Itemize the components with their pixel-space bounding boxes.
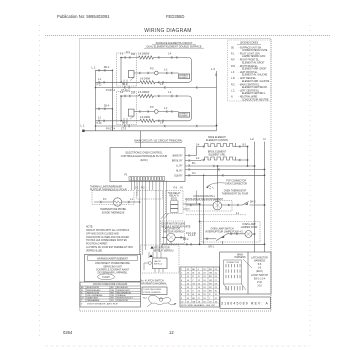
svg-text:BAKE RY: BAKE RY [173, 154, 183, 157]
svg-text:YELLOW/JAUNE: YELLOW/JAUNE [87, 294, 103, 297]
terminal marks element wire [99, 120, 164, 122]
terminal marks top wire [125, 56, 178, 58]
svg-text:L.F.: L.F. [231, 72, 235, 74]
resistor surface element 1B [140, 81, 155, 84]
svg-text:THERMOSTAT DU FOUR: THERMOSTAT DU FOUR [222, 192, 249, 195]
svg-text:GRAY/GRIS: GRAY/GRIS [87, 297, 99, 300]
thermostat zone dashed bottom [186, 214, 246, 216]
svg-text:LAMPE TEMOIN 120V: LAMPE TEMOIN 120V [242, 55, 266, 58]
terminal marks EOC outputs [189, 154, 224, 176]
svg-text:TOUTES LES COMMANDES SONT EN: TOUTES LES COMMANDES SONT EN [86, 239, 127, 242]
svg-text:MOTEUR VERROU: MOTEUR VERROU [164, 231, 185, 233]
svg-text:- LEFT REAR EL.: - LEFT REAR EL. [239, 77, 257, 80]
TOD delay relay box [166, 191, 184, 214]
svg-text:DR-1: DR-1 [209, 246, 215, 248]
svg-text:MAIN: MAIN [237, 253, 243, 256]
terminal marks lamp [207, 233, 238, 240]
junction feed left [95, 87, 97, 89]
surface element label box [179, 74, 190, 79]
junction stub [112, 108, 114, 110]
svg-text:DR-2: DR-2 [183, 239, 189, 241]
svg-text:P-10: P-10 [257, 282, 263, 284]
svg-text:ELEMENT CUISSON: ELEMENT CUISSON [206, 140, 228, 142]
cut mark bottom dashed line [45, 345, 310, 347]
surface unit circuit 1 [95, 52, 217, 131]
junction loop left [120, 95, 122, 97]
svg-text:- RIGHT REAR EL.: - RIGHT REAR EL. [239, 65, 259, 68]
svg-text:VERROUILLEE.: VERROUILLEE. [86, 250, 103, 252]
main diagram frame [80, 39, 272, 312]
svg-text:R.F.: R.F. [231, 60, 235, 62]
resistor broil element [205, 157, 236, 160]
svg-text:INFORMATION/NORMAL: INFORMATION/NORMAL [141, 283, 168, 286]
wire left bracket [121, 96, 123, 121]
surface elements circuit title [144, 42, 204, 49]
svg-text:SONDE THERMIQUE: SONDE THERMIQUE [102, 212, 125, 214]
wire middle line [134, 72, 179, 74]
svg-text:SERVICING UNIT: SERVICING UNIT [103, 266, 122, 268]
svg-text:- RIGHT FRONT EL.: - RIGHT FRONT EL. [239, 60, 260, 62]
svg-text:BAKE ELEMENT: BAKE ELEMENT [208, 136, 226, 139]
probe resistor inside [114, 201, 120, 203]
junction lamp feed [203, 175, 205, 177]
wire TOD diagonals [161, 214, 169, 219]
svg-text:2-8 1800W: 2-8 1800W [138, 53, 150, 55]
junction stub [112, 70, 114, 72]
main harness box [220, 252, 271, 294]
svg-text:TOP CONNECTOR: TOP CONNECTOR [226, 181, 246, 183]
svg-text:SW No.4: SW No.4 [154, 264, 163, 266]
resistor bake element [205, 144, 236, 147]
svg-text:DUAL ELEMENT/ELEMENT DOUBLE SU: DUAL ELEMENT/ELEMENT DOUBLE SURFACE [146, 45, 201, 48]
wire vertical bus bundle below EOC [132, 181, 167, 256]
wire probe left [94, 201, 113, 203]
svg-text:FLASH: FLASH [102, 276, 110, 279]
svg-text:- MAIN CENTER EL.: - MAIN CENTER EL. [239, 83, 261, 86]
svg-text:OVEN DOOR CLOSED AND UNLOCKED.: OVEN DOOR CLOSED AND UNLOCKED. [86, 236, 130, 239]
svg-text:ELEMENT GRIL: ELEMENT GRIL [209, 155, 227, 157]
surface unit circuit 2 [95, 91, 217, 131]
svg-text:L 1: L 1 [92, 65, 96, 69]
svg-text:OVEN THERMOSTAT: OVEN THERMOSTAT [224, 189, 247, 192]
svg-text:TOD DELAY: TOD DELAY [168, 192, 181, 195]
svg-text:P.L.: P.L. [231, 54, 235, 56]
wire latch bottom rail [162, 243, 265, 245]
junction dots right buses [247, 146, 249, 148]
junction fan feed [217, 165, 219, 167]
wire lamp line mid [227, 233, 245, 235]
svg-text:CT-4: CT-4 [110, 128, 116, 130]
part number box [220, 297, 271, 309]
pilot light P.L. [155, 71, 159, 75]
junction probe bus [139, 201, 141, 203]
wire right bracket [188, 58, 191, 83]
svg-text:ELEMENT: ELEMENT [179, 116, 188, 118]
svg-text:ELEMENT CENTRE G.: ELEMENT CENTRE G. [242, 93, 266, 95]
svg-text:(EOC): (EOC) [256, 271, 263, 273]
svg-text:OVEN LAMP: OVEN LAMP [242, 223, 256, 226]
svg-text:OFF AND DOOR CLOSED AND: OFF AND DOOR CLOSED AND [86, 232, 119, 235]
svg-text:N: N [263, 137, 265, 141]
svg-text:W: W [192, 273, 194, 275]
svg-text:- SURFACE UNIT SW.: - SURFACE UNIT SW. [239, 46, 262, 49]
cut mark left dotted line [39, 25, 41, 336]
wire EOC relay outputs [185, 156, 265, 176]
junction fan out [228, 204, 230, 206]
wire right bracket [188, 96, 191, 121]
wire L1 feed line [96, 87, 217, 89]
junction lamp L2 [254, 233, 256, 235]
relay contact box middle [128, 109, 134, 116]
svg-text:LAMPES FOUR: LAMPES FOUR [241, 226, 258, 229]
svg-text:POSITION D'ARRET.: POSITION D'ARRET. [86, 243, 108, 246]
wire fan feed vertical [217, 166, 219, 201]
wire broil riser [197, 159, 202, 162]
terminal marks feed wire [124, 125, 197, 127]
wire latch feed verticals [149, 252, 161, 258]
temperature probe circle [113, 198, 121, 206]
wire probe right [122, 201, 140, 203]
svg-text:P-11: P-11 [106, 90, 111, 92]
svg-text:(EOC): (EOC) [171, 198, 178, 200]
connector pin row [129, 177, 165, 181]
junction L2 rail [216, 125, 218, 127]
wire element line [96, 81, 141, 83]
svg-text:COUPER LE COURANT AVANT: COUPER LE COURANT AVANT [96, 268, 130, 271]
svg-text:NOTE: WIRE GAGE/AWG - SEE LIST: NOTE: WIRE GAGE/AWG - SEE LIST [181, 304, 216, 307]
svg-text:SU-3: SU-3 [122, 123, 128, 125]
wire element line right [155, 120, 188, 122]
resistor surface element 2B [140, 119, 155, 122]
svg-text:CONDUCTEUR NEUTRE: CONDUCTEUR NEUTRE [242, 99, 269, 101]
infinite switch dashed box [117, 53, 137, 86]
svg-text:BROIL RY: BROIL RY [172, 160, 183, 162]
svg-text:12: 12 [169, 330, 174, 335]
svg-text:HARNESS: HARNESS [234, 256, 246, 259]
warning box [85, 255, 141, 282]
wire L1 feed line [96, 125, 217, 127]
svg-text:LATCH: LATCH [154, 260, 161, 263]
svg-text:FED355D: FED355D [166, 14, 184, 19]
svg-text:Publication No: 5995403091: Publication No: 5995403091 [57, 14, 110, 19]
svg-text:PORTE OUVERTE: PORTE OUVERTE [144, 292, 162, 294]
wire L1 stub upper [96, 69, 113, 71]
svg-text:OVEN LAMP SWITCH: OVEN LAMP SWITCH [210, 227, 233, 230]
svg-text:MAIN CIRCUIT / LE CIRCUIT PRIN: MAIN CIRCUIT / LE CIRCUIT PRINCIPAL [134, 139, 183, 143]
pilot light P.L. [155, 110, 159, 114]
lamp oven light [245, 231, 252, 238]
wire latch motor leads [162, 236, 186, 238]
svg-text:P-10: P-10 [97, 123, 103, 125]
svg-text:LATCH MOTOR: LATCH MOTOR [251, 257, 268, 260]
wire circuit loop top [121, 95, 188, 97]
junction TOD fan [199, 203, 201, 205]
wire surface bottom rail [83, 130, 216, 132]
svg-text:No. 4 LATCH SWITCH: No. 4 LATCH SWITCH [141, 279, 165, 282]
svg-text:15A: 15A [131, 92, 136, 95]
svg-text:INTERRUPTEUR LAMPE FOUR: INTERRUPTEUR LAMPE FOUR [205, 230, 239, 233]
terminal marks stub upper [99, 69, 106, 71]
wire latch risers [162, 204, 200, 247]
svg-text:2-8 240W: 2-8 240W [140, 117, 151, 119]
svg-text:P-12: P-12 [97, 84, 103, 86]
cut mark right dotted line [309, 25, 311, 336]
wire lamp feed [203, 175, 205, 244]
note text block [86, 226, 133, 252]
wire lamp to L2 [252, 233, 255, 235]
resistor surface element 2A [139, 94, 154, 97]
svg-text:CONTROLE ELECTRONIQUE DU FOUR: CONTROLE ELECTRONIQUE DU FOUR [121, 155, 168, 158]
svg-text:4-3 4-5: 4-3 4-5 [188, 235, 196, 237]
svg-text:L2: L2 [250, 137, 254, 141]
wire fan line right [222, 204, 243, 206]
terminal marks stub upper [99, 108, 106, 110]
color code table [80, 282, 141, 307]
resistor surface element 1A [139, 56, 154, 59]
svg-text:R.C.: R.C. [231, 84, 236, 86]
surface element label box [179, 113, 190, 118]
wire fan aux vertical [196, 191, 198, 205]
infinite switch dashed box [117, 92, 137, 125]
wire bake element line [197, 146, 248, 148]
terminal marks middle wire [139, 72, 172, 74]
wire lamp line left [204, 238, 217, 240]
svg-text:318045089 REV: A: 318045089 REV: A [221, 302, 269, 306]
svg-text:ELEMENT CENTRE DR.: ELEMENT CENTRE DR. [242, 87, 268, 89]
svg-text:ORANGE: ORANGE [117, 294, 126, 297]
svg-text:ELECTRONIC OVEN CONTROL: ELECTRONIC OVEN CONTROL [126, 152, 163, 155]
junction latch rail [199, 243, 201, 245]
junction loop left [120, 57, 122, 59]
svg-text:ELEMENT ARR. GAUCHE: ELEMENT ARR. GAUCHE [242, 80, 270, 83]
svg-text:2-8 1800W: 2-8 1800W [138, 92, 150, 94]
svg-text:PINK/ROSE: PINK/ROSE [117, 300, 129, 302]
svg-text:CIRCUIT SHOWN WITH ALL CONTROL: CIRCUIT SHOWN WITH ALL CONTROLS [86, 229, 130, 232]
switch contacts element wire [124, 116, 134, 124]
svg-text:ELEMENT ARR. DROIT: ELEMENT ARR. DROIT [242, 68, 267, 71]
svg-text:TAN/HAVANE: TAN/HAVANE [87, 299, 100, 302]
svg-text:THERMAL LIMITER/BREAKER: THERMAL LIMITER/BREAKER [90, 185, 123, 188]
wire element line [96, 120, 141, 122]
junction lamp box feed [199, 221, 201, 223]
svg-text:DOOR UNLOCKED: DOOR UNLOCKED [144, 289, 162, 291]
svg-text:- LEFT CENTER EL.: - LEFT CENTER EL. [239, 91, 261, 93]
svg-text:ELEMENT AV. DROIT: ELEMENT AV. DROIT [242, 61, 265, 64]
wire element line right [155, 81, 188, 83]
svg-text:TEMPERATURE PROBE: TEMPERATURE PROBE [100, 208, 126, 211]
wire L1 feed horizontal [140, 131, 142, 148]
terminal marks bake [203, 145, 240, 147]
svg-text:CT-3: CT-3 [121, 128, 127, 130]
svg-text:RELAY A: RELAY A [169, 195, 179, 198]
wire middle line [134, 111, 179, 113]
terminal marks top wire [125, 95, 178, 97]
svg-text:DISCONNECT POWER BEFORE: DISCONNECT POWER BEFORE [95, 263, 130, 265]
switch fan thermostat [243, 201, 265, 205]
svg-text:DK-4: DK-4 [104, 106, 110, 108]
wire L1 vertical bus [95, 70, 97, 131]
svg-text:L.R.: L.R. [231, 78, 236, 80]
latch cam drawing [149, 295, 171, 304]
temperature probe dashed box [92, 191, 134, 205]
svg-text:DN-2: DN-2 [250, 201, 256, 203]
latch switch detail box [142, 287, 167, 295]
svg-text:DK-2: DK-2 [104, 67, 110, 69]
junction rail N [264, 243, 266, 245]
header dashed separator [45, 35, 330, 37]
cooling fan dashed box [186, 201, 232, 212]
svg-text:WARNING/AVERTISSEMENT: WARNING/AVERTISSEMENT [97, 257, 128, 260]
svg-text:SU: SU [231, 47, 235, 49]
terminal marks L2 bus [215, 74, 216, 76]
svg-text:DLB RY: DLB RY [174, 175, 183, 177]
terminal marks element wire [99, 81, 164, 83]
motor latch [167, 233, 175, 241]
terminal marks probe [100, 201, 130, 203]
switch contacts element wire [124, 78, 134, 86]
junction L1 feed [82, 130, 84, 132]
wire circuit feed vertical [111, 109, 113, 131]
sensor connector dashed box [137, 191, 163, 200]
svg-text:- NEUTRAL WIRE: - NEUTRAL WIRE [239, 96, 258, 99]
svg-text:ELEMENT: ELEMENT [179, 77, 188, 79]
svg-text:WIRING DIAGRAM: WIRING DIAGRAM [144, 28, 192, 34]
wire switch drop [222, 241, 224, 244]
svg-text:COMMUTATEUR UNITE: COMMUTATEUR UNITE [242, 49, 268, 52]
svg-text:SU-1: SU-1 [122, 84, 128, 86]
latch motor assembly dashed box [141, 245, 180, 273]
svg-text:CT-2: CT-2 [110, 90, 116, 92]
svg-text:SW 1-2 3-4: SW 1-2 3-4 [254, 279, 266, 281]
svg-text:OVEN CONNECTOR: OVEN CONNECTOR [225, 184, 247, 186]
oven connector symbol [209, 186, 214, 190]
wire gauge table [180, 267, 219, 307]
svg-text:WHITE/BLANC: WHITE/BLANC [87, 289, 101, 292]
svg-text:15A: 15A [131, 53, 136, 56]
svg-text:L.C.: L.C. [231, 91, 236, 93]
svg-text:MOTEUR VERROU: MOTEUR VERROU [153, 251, 174, 253]
wire broil element line [201, 147, 248, 167]
wire bake riser [196, 147, 198, 156]
wire N bus [264, 142, 266, 253]
svg-text:DOOR MOTOR DLB-R: DOOR MOTOR DLB-R [162, 224, 186, 226]
relay contact box middle [128, 71, 134, 78]
svg-text:LL RY: LL RY [176, 165, 183, 167]
svg-text:BROIL ELEMENT: BROIL ELEMENT [208, 152, 227, 154]
wire L2 surface bus [216, 71, 218, 131]
junction feed left [95, 125, 97, 127]
svg-text:HL RY: HL RY [176, 170, 183, 172]
svg-text:L 1: L 1 [81, 124, 85, 128]
svg-text:0264: 0264 [63, 330, 73, 335]
svg-text:HARNESS: HARNESS [254, 260, 266, 263]
svg-text:2-8 240W: 2-8 240W [140, 78, 151, 80]
svg-text:L 2: L 2 [211, 67, 215, 71]
oven lamp dashed box [201, 222, 260, 243]
terminal marks broil [203, 159, 240, 161]
svg-text:R.R.: R.R. [231, 66, 236, 68]
svg-text:(EOC): (EOC) [140, 159, 147, 162]
motor cooling fan [213, 201, 222, 210]
wire L1 stub upper [96, 108, 113, 110]
wire fan line left [186, 204, 214, 206]
svg-text:CONNECTOR: CONNECTOR [226, 262, 239, 264]
wire TOD to fan [183, 204, 200, 209]
svg-text:J-10: J-10 [257, 285, 262, 287]
svg-text:LATCH SWITCH: LATCH SWITCH [251, 274, 268, 277]
switch oven lamp [216, 234, 227, 241]
svg-text:BLACK/NOIR: BLACK/NOIR [87, 286, 100, 289]
wire L2 main bus [254, 142, 256, 253]
svg-text:VIOLET W/TRACER - AVEC FILET: VIOLET W/TRACER - AVEC FILET [87, 303, 119, 306]
wire circuit feed vertical [111, 70, 113, 131]
svg-text:W: W [192, 294, 194, 296]
svg-text:LATCH MOTOR: LATCH MOTOR [153, 247, 170, 250]
terminal marks rail [186, 243, 192, 245]
svg-text:ELEMENT AV. GAUCHE: ELEMENT AV. GAUCHE [242, 74, 268, 77]
op-amp U1 electronic oven control box [110, 148, 185, 182]
terminal marks middle wire [139, 110, 172, 112]
junction broil bus [247, 159, 249, 161]
terminal marks fan [190, 204, 239, 206]
wire left bracket [121, 58, 123, 83]
svg-text:LA PORTE DU FOUR EST FERMEE ET: LA PORTE DU FOUR EST FERMEE ET NON [86, 246, 133, 249]
svg-text:NOTE:: NOTE: [86, 226, 93, 228]
wire circuit loop top [121, 57, 188, 59]
svg-text:- LEFT FRONT EL.: - LEFT FRONT EL. [239, 72, 259, 74]
svg-text:LATCH MOTOR: LATCH MOTOR [164, 228, 181, 231]
top connector arrow [207, 183, 225, 186]
terminal marks feed wire [124, 86, 197, 88]
junction fan N [264, 204, 266, 206]
legend box [228, 40, 272, 101]
svg-text:- PILOT LIGHT 120V: - PILOT LIGHT 120V [239, 54, 261, 56]
latch motor relay dashed box [161, 221, 185, 244]
